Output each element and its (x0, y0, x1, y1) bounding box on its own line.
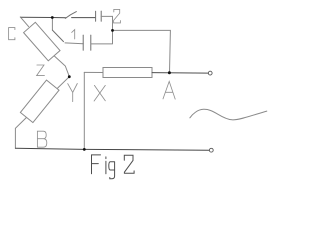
resistor Z body (24, 22, 60, 60)
terminal circle top right (208, 71, 212, 75)
wire switch 1 contact to capacitor 1 (65, 42, 83, 45)
wire junction D2 to right corner and down to node A (113, 30, 171, 72)
wire switch1 branch vertical from top junction (51, 18, 53, 31)
label A (163, 81, 175, 99)
wire resistor B bottom lead to corner (15, 118, 26, 149)
label Z (37, 65, 45, 76)
capacitor C2 right plate (100, 11, 102, 21)
junction dot bottom wire (83, 148, 86, 151)
wire capacitor 2 to corner down (101, 16, 112, 44)
resistor X body (103, 68, 152, 78)
wire P1 to resistor Z top lead (20, 17, 28, 27)
label Y (68, 84, 78, 102)
squiggle wavy line (190, 109, 267, 120)
wire junction to switch 2 left contact (52, 17, 66, 19)
capacitor C1 left plate (82, 35, 84, 50)
junction dot node Y (68, 75, 71, 78)
wire resistor Z bottom lead to node Y (54, 56, 69, 77)
label 1 (72, 30, 75, 39)
wire corner to resistor X (84, 71, 103, 73)
wire vertical X-left to bottom (83, 72, 85, 149)
label 2 small (114, 9, 121, 23)
label C (9, 28, 15, 40)
wire switch 2 to capacitor 2 (72, 17, 96, 19)
label B (37, 131, 46, 147)
junction dot D1 top (51, 16, 54, 19)
junction dot D2 caps (111, 29, 114, 32)
bottom wire to terminal (15, 148, 209, 150)
wire top-left corner P1 to junction (20, 16, 52, 18)
Fig 2 caption: 2 (124, 155, 134, 173)
capacitor C1 right plate (90, 35, 92, 50)
wire node Y to resistor B top lead (58, 77, 70, 88)
wire capacitor 1 to corner (91, 43, 112, 45)
Fig 2 caption: i (105, 157, 107, 174)
Fig 2 caption: g (109, 162, 115, 179)
capacitor C2 left plate (95, 11, 97, 21)
junction dot node A (168, 71, 171, 74)
switch S2 blade (65, 12, 76, 19)
wire resistor X to node A to terminal (152, 72, 208, 75)
Fig 2 caption: F (92, 155, 101, 174)
terminal circle bottom right (209, 148, 213, 152)
switch S1 blade (52, 30, 63, 41)
resistor B body (20, 80, 59, 122)
label X (94, 85, 105, 101)
